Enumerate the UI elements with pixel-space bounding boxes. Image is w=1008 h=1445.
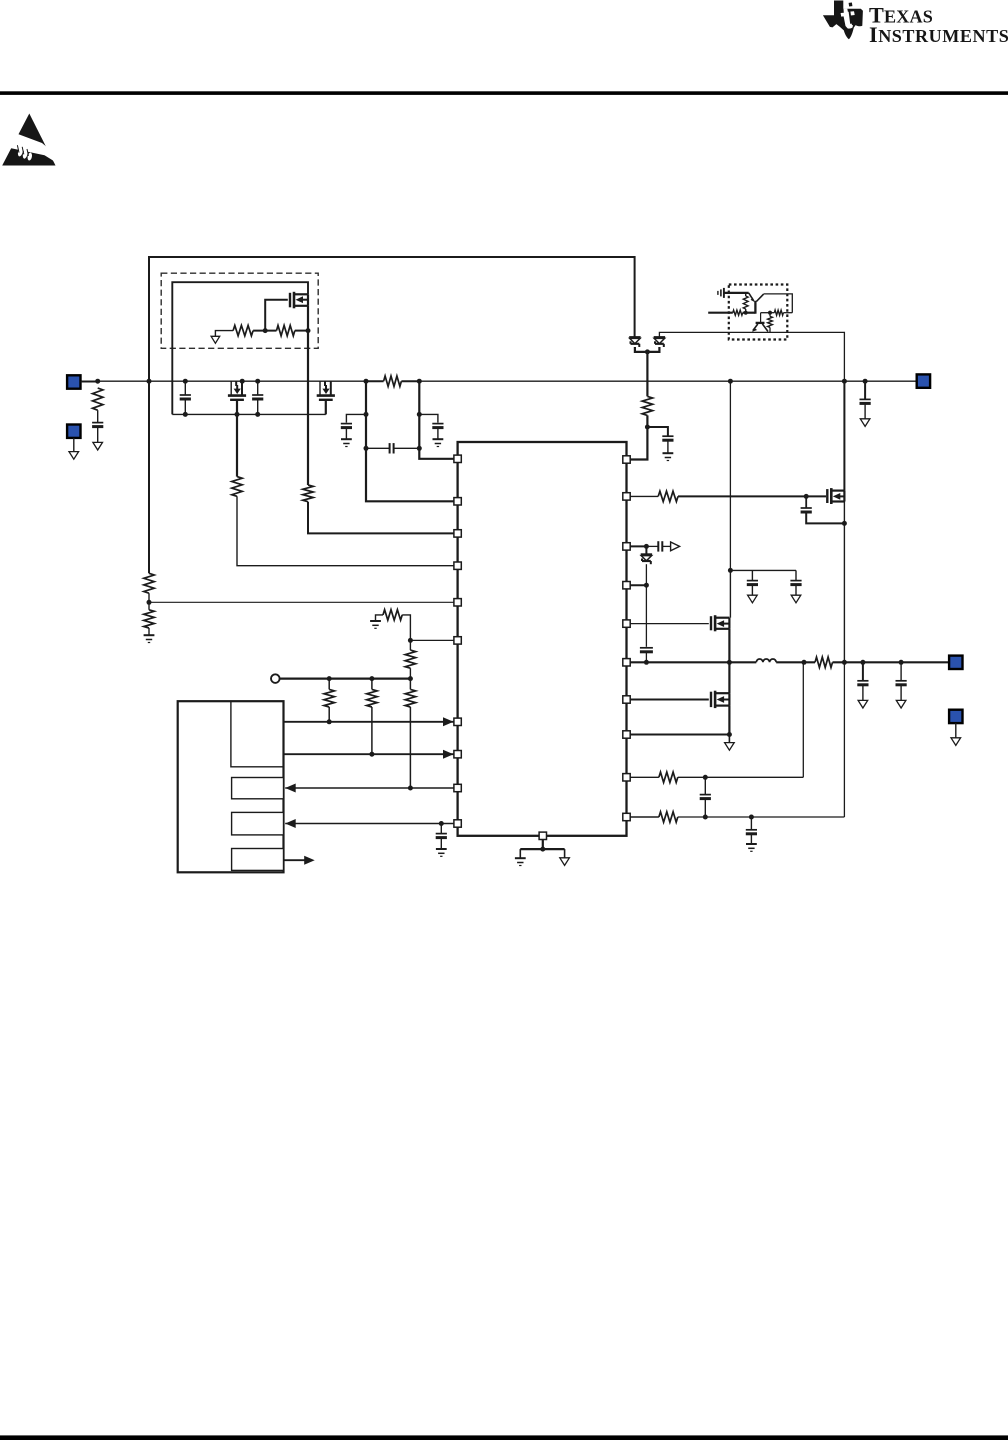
ground earth (FB low)	[746, 843, 757, 845]
wire pin14 link	[630, 584, 646, 586]
wire 366 branch	[366, 381, 454, 501]
capacitor C (FB low)	[746, 829, 757, 831]
wire R to pin11	[630, 415, 647, 459]
node C2/rail junction	[235, 412, 240, 417]
wire ctrl line5 stub	[284, 859, 306, 861]
wire R to Q1 drain bar	[295, 330, 308, 332]
capacitor C (FB)	[700, 794, 711, 796]
wire FB up	[802, 662, 804, 777]
wire opto input	[708, 312, 733, 314]
wire FB cap legs	[704, 777, 706, 794]
resistor R (VCC feed)	[642, 396, 652, 415]
wire boot down	[645, 546, 647, 554]
node FB tap 1	[802, 660, 807, 665]
node mux c	[408, 676, 413, 681]
wire opto be stubs	[745, 293, 747, 296]
wire mode R left	[376, 615, 384, 621]
IC left pin 10	[454, 820, 461, 827]
node C3 top	[255, 379, 260, 384]
node FB low mid	[703, 815, 708, 820]
wire C7 to gnd	[437, 428, 439, 439]
ground arrow (J2)	[69, 452, 79, 460]
wire R to SS pin	[237, 496, 454, 565]
resistor R (gate PMOS)	[658, 491, 678, 501]
capacitor C (gate)	[801, 507, 812, 509]
connector J3 cell3	[232, 812, 284, 835]
wire D2 top link	[659, 332, 844, 381]
resistor R (mux c)	[405, 689, 415, 707]
node 419/448	[417, 446, 422, 451]
wire R left to ground	[215, 331, 233, 337]
ground arrow (vcc cap2)	[791, 595, 801, 603]
capacitor C boot (series)	[657, 541, 659, 551]
wire lower rail	[172, 413, 325, 415]
terminal J5 VOUT-	[949, 710, 962, 723]
wire 149 down	[148, 381, 150, 573]
node bus/844 junction	[842, 379, 847, 384]
ground earth (RT)	[144, 634, 155, 636]
wire branch to C5	[346, 414, 366, 422]
wire diode join bar	[635, 347, 660, 352]
ground earth (pad)	[515, 857, 526, 859]
wire Q4 source down	[843, 502, 845, 663]
resistor R (opto c2)	[774, 310, 783, 315]
wire C5 to gnd	[345, 428, 347, 439]
wire 730 down	[729, 381, 731, 570]
node mux a	[327, 676, 332, 681]
wire J2 down	[73, 438, 75, 452]
wire opto collector	[764, 294, 793, 313]
connector J3 cell4	[232, 849, 284, 871]
node top-rail/bus junction	[147, 379, 152, 384]
arrow line2 to pin8	[443, 750, 454, 759]
arrow line1 to pin7	[443, 717, 454, 726]
wire cap to gnd	[97, 427, 99, 443]
wire pin15 link	[630, 623, 709, 625]
node bus/419 junction	[417, 379, 422, 384]
dashed enclosure box	[161, 273, 318, 348]
node VCC cap junction	[645, 425, 650, 430]
capacitor C (vcc rail 2)	[790, 580, 801, 582]
node mux a line1	[327, 719, 332, 724]
resistor R (gate pulldown left)	[233, 325, 253, 335]
resistor R (mux b)	[367, 689, 377, 707]
wire pad left drop	[519, 849, 521, 858]
ground arrow (vcc cap1)	[748, 595, 758, 603]
node bus/366 junction	[364, 379, 369, 384]
resistor R (opto b2)	[768, 316, 773, 327]
node RT junction	[147, 600, 152, 605]
IC left pin 9	[454, 784, 461, 791]
wire RT to gnd	[148, 628, 150, 635]
node 366/448	[364, 446, 369, 451]
node Q4/cap junction	[842, 521, 847, 526]
capacitor C2 polarized (bulk input)	[230, 381, 232, 394]
svg-text:TEXAS: TEXAS	[869, 2, 933, 27]
wire SW line	[630, 661, 756, 663]
connector J3 cell2	[232, 778, 284, 799]
node mode junction	[408, 638, 413, 643]
wire SW line 3	[833, 661, 950, 663]
resistor R (opto be)	[743, 296, 748, 309]
wire mux c tail	[409, 679, 411, 690]
resistor R (gate series)	[277, 325, 295, 335]
node C1 top	[183, 379, 188, 384]
node FB mid	[703, 775, 708, 780]
wire Q5 source down	[728, 629, 730, 663]
ground earth rotated (opto)	[717, 291, 719, 295]
resistor R (FB bottom)	[659, 812, 678, 822]
resistor R (mode pullup)	[383, 610, 402, 620]
IC U1 TPS54620 outline	[458, 442, 627, 836]
IC right pin 18	[623, 731, 630, 738]
terminal J4 VOUT+	[949, 656, 962, 669]
node pad junction	[540, 847, 545, 852]
node out cap1	[860, 660, 865, 665]
node out cap2	[899, 660, 904, 665]
wire series-cap link left	[366, 447, 390, 449]
terminal J6 VIN bus right	[917, 374, 930, 387]
wire input bus mid2	[401, 380, 419, 382]
node out/844	[842, 660, 847, 665]
wire mux b tail	[371, 679, 373, 690]
wire out cap2 leg	[900, 662, 902, 681]
node J1 junction	[95, 379, 100, 384]
wire gate cap out	[806, 512, 844, 523]
dotted enclosure box	[729, 285, 788, 340]
IC right pin 17	[623, 696, 630, 703]
wire vcc cap2 legs	[795, 570, 797, 580]
wire R-R link	[253, 330, 276, 332]
ground earth (C5)	[341, 438, 352, 440]
resistor R (input sense)	[93, 388, 103, 410]
IC bottom pin (PowerPAD)	[539, 832, 546, 839]
wire VCC cap gnd	[667, 440, 669, 452]
node bus cap right	[863, 379, 868, 384]
wire C1 bottom leg	[184, 399, 186, 414]
wire J5 down	[955, 723, 957, 738]
wire line4 cap gnd	[440, 838, 442, 849]
IC left pin 8	[454, 751, 461, 758]
wire mux rail	[280, 677, 411, 679]
wire 419 branch	[419, 381, 454, 459]
wire pin17 link	[630, 699, 709, 701]
transistor Q6 NMOS (low side)	[710, 692, 712, 707]
IC left pin 4	[454, 562, 461, 569]
diode D2 schottky	[654, 336, 665, 339]
IC right pin 11	[623, 456, 630, 463]
wire opto stage2 rail	[761, 312, 775, 314]
node gate junction	[263, 328, 268, 333]
ground earth (mode)	[370, 620, 381, 622]
resistor R (RT top)	[144, 573, 154, 593]
wire vcc cap1 legs	[751, 570, 753, 580]
resistor R (divider x237)	[232, 477, 242, 497]
wire opto base link	[743, 312, 756, 314]
wire pad right drop	[564, 849, 566, 858]
wire pin18 link	[630, 734, 729, 736]
wire mode down	[409, 640, 411, 650]
page top rule	[0, 91, 1008, 95]
capacitor C6 (series)	[389, 443, 391, 453]
resistor R (output sense)	[815, 657, 833, 667]
ground arrow (J5)	[951, 738, 961, 746]
wire pad down	[542, 840, 544, 850]
wire opto c2 link	[783, 312, 792, 314]
ground arrow (out2)	[896, 700, 906, 708]
IC right pin 15	[623, 620, 630, 627]
IC left pin 6	[454, 637, 461, 644]
node diode junction	[645, 349, 650, 354]
IC right pin 19	[623, 774, 630, 781]
wire VCC cap link	[647, 427, 668, 436]
wire Q1 drain down	[307, 306, 309, 381]
node mux c line3	[408, 786, 413, 791]
wire C3 bottom leg	[257, 399, 259, 414]
wire gate cap leg	[805, 496, 807, 508]
wire out cap1 leg	[862, 662, 864, 681]
node mux b	[369, 676, 374, 681]
node 366/rail2	[364, 412, 369, 417]
capacitor C (VCC)	[662, 435, 673, 437]
ground earth (C7)	[433, 438, 444, 440]
wire mode R right	[402, 615, 410, 641]
wire 844 upper	[843, 381, 845, 490]
wire pin12 link	[630, 495, 658, 497]
node C1 bottom	[183, 412, 188, 417]
wire pin19 link	[630, 776, 659, 778]
wire input bus mid	[366, 380, 384, 382]
transistor Q2 NPN (opto top)	[754, 301, 756, 314]
wire line4 cap leg	[440, 824, 442, 834]
IC left pin 3	[454, 530, 461, 537]
capacitor C (boot mid)	[640, 647, 653, 649]
wire C2 bottom leg	[236, 400, 238, 477]
wire input bus right	[419, 380, 916, 382]
node opto be junction	[744, 311, 748, 315]
wire out cap2 gnd	[900, 685, 902, 701]
wire pin13 link	[630, 545, 646, 547]
wire R to gate	[678, 495, 826, 497]
IC left pin 7	[454, 718, 461, 725]
wire Q6 gnd drop	[728, 735, 730, 743]
IC left pin 1	[454, 455, 461, 462]
node SW/646 junction	[644, 660, 649, 665]
wire boot cap2 down	[645, 652, 647, 663]
wire opto emitter rail	[724, 292, 749, 294]
wire C1 top leg	[184, 381, 186, 395]
wire C3 top leg	[257, 381, 259, 395]
capacitor C (input sense)	[92, 422, 103, 424]
wire FB low cap legs	[750, 817, 752, 830]
resistor R bus	[384, 376, 402, 386]
wire input bus left	[81, 380, 367, 382]
capacitor C (bus right)	[860, 398, 871, 400]
resistor R (mux a)	[324, 689, 334, 707]
capacitor C1	[180, 394, 191, 396]
transistor Q4 PMOS (VCC switch)	[826, 489, 828, 503]
node C2 top	[240, 379, 245, 384]
arrow line4 into connector	[285, 819, 296, 828]
ground arrow (bus cap)	[860, 419, 870, 427]
wire Q1 gate	[265, 300, 288, 331]
resistor R (FB top)	[659, 772, 678, 782]
node Q1 drain junction	[306, 328, 311, 333]
terminal J2 VIN-	[67, 425, 80, 438]
ground arrow (J1 chain)	[93, 442, 103, 450]
arrow line3 into connector	[285, 784, 296, 793]
node FB low cap	[749, 815, 754, 820]
wire R to EN pin	[308, 502, 454, 534]
wire mux a tail	[328, 679, 330, 690]
node C3 bottom	[255, 412, 260, 417]
connector J3 cell1	[231, 701, 284, 767]
wire Q6 drain up	[728, 662, 730, 693]
wire mode to pin6	[410, 639, 454, 641]
wire boot cap link	[646, 545, 658, 547]
wire Q6 source down	[728, 706, 730, 735]
IC right pin 20	[623, 813, 630, 820]
transistor Q1 PMOS (in dashed box)	[289, 293, 291, 308]
ground arrow (Q6)	[725, 743, 735, 751]
wire bus cap gnd	[864, 403, 866, 418]
node opto b2 top	[768, 311, 772, 315]
capacitor C (out 2)	[896, 680, 907, 682]
wire series-cap link right	[394, 447, 420, 449]
ground arrow (dashed box)	[211, 336, 220, 343]
wire ctrl line3	[285, 787, 454, 789]
capacitor C3	[252, 394, 263, 396]
wire pad tee	[520, 848, 564, 850]
wire SW line 2	[776, 661, 815, 663]
resistor R (RT bottom)	[144, 610, 154, 628]
wire C4 bottom leg	[325, 400, 327, 415]
capacitor C (line4)	[436, 833, 447, 835]
wire boot arrow link	[662, 545, 670, 547]
diode D1 schottky	[629, 336, 640, 339]
wire RT mid	[148, 593, 150, 610]
wire inner frame (Q bypass loop)	[172, 282, 308, 414]
ESD warning icon	[2, 114, 57, 166]
IC right pin 14	[623, 582, 630, 589]
ground earth (line4)	[436, 848, 447, 850]
transistor Q5 NMOS (high side)	[710, 616, 712, 630]
wire pin20 link	[630, 816, 659, 818]
wire branch to C7	[419, 414, 438, 422]
capacitor C (vcc rail 1)	[747, 580, 758, 582]
capacitor C (out 1)	[857, 680, 868, 682]
wire zener down	[645, 564, 647, 647]
wire opto b2 tail	[769, 313, 771, 317]
wire mode to mux rail	[409, 668, 411, 678]
IC left pin 2	[454, 498, 461, 505]
diode D3 zener	[641, 553, 652, 556]
transistor Q3 NPN (opto bottom)	[756, 322, 765, 324]
resistor R (UVLO top)	[303, 485, 313, 502]
node bus/730 junction	[728, 379, 733, 384]
node SW/729 junction	[727, 660, 732, 665]
node Q6 source junction	[727, 732, 732, 737]
resistor R (opto base)	[733, 310, 743, 315]
IC left pin 5	[454, 599, 461, 606]
node gate cap junction	[804, 494, 809, 499]
wire diode out down	[646, 352, 648, 397]
wire FB low up	[843, 662, 845, 817]
connector J3 outline	[178, 701, 284, 872]
wire FB bottom link	[678, 816, 845, 818]
arrow line5 out	[304, 856, 315, 865]
node 730/570 junction	[728, 568, 733, 573]
inductor L1	[756, 659, 776, 662]
wire bus cap leg	[864, 381, 866, 399]
ground arrow (out1)	[858, 700, 868, 708]
wire out cap1 gnd	[862, 685, 864, 701]
arrow boot to SW	[671, 542, 680, 551]
test point circle	[271, 674, 280, 683]
wire ctrl line4	[285, 823, 454, 825]
wire RT to pin5	[149, 601, 454, 603]
wire 730 to Q5 drain	[729, 570, 731, 617]
ground arrow (pad)	[560, 858, 570, 866]
wire vcc cap rail	[730, 569, 796, 571]
IC right pin 16	[623, 659, 630, 666]
ground earth (VCC cap)	[663, 452, 674, 454]
page bottom rule	[0, 1435, 1008, 1440]
capacitor C7	[432, 423, 443, 425]
node mux b line2	[369, 752, 374, 757]
wire ctrl line2	[284, 753, 454, 755]
node pin14 junction	[644, 583, 649, 588]
resistor R (mode mid)	[405, 650, 415, 668]
node 419/rail2	[417, 412, 422, 417]
capacitor C4 polarized (bulk input 2)	[319, 381, 321, 394]
wire FB top link	[678, 776, 804, 778]
wire top rail	[149, 257, 635, 381]
terminal J1 VIN+	[67, 375, 80, 388]
node pin13 junction	[644, 544, 649, 549]
IC right pin 12	[623, 493, 630, 500]
svg-text:INSTRUMENTS: INSTRUMENTS	[869, 22, 1008, 47]
node line4 cap junction	[439, 821, 444, 826]
wire Q1 drain to R	[307, 381, 309, 485]
wire ctrl line1	[284, 721, 454, 723]
wire J1 to bus	[81, 381, 98, 383]
IC right pin 13	[623, 543, 630, 550]
wire R to cap	[97, 410, 99, 422]
capacitor C5	[341, 423, 352, 425]
TI logo Texas map glyph	[823, 1, 863, 40]
